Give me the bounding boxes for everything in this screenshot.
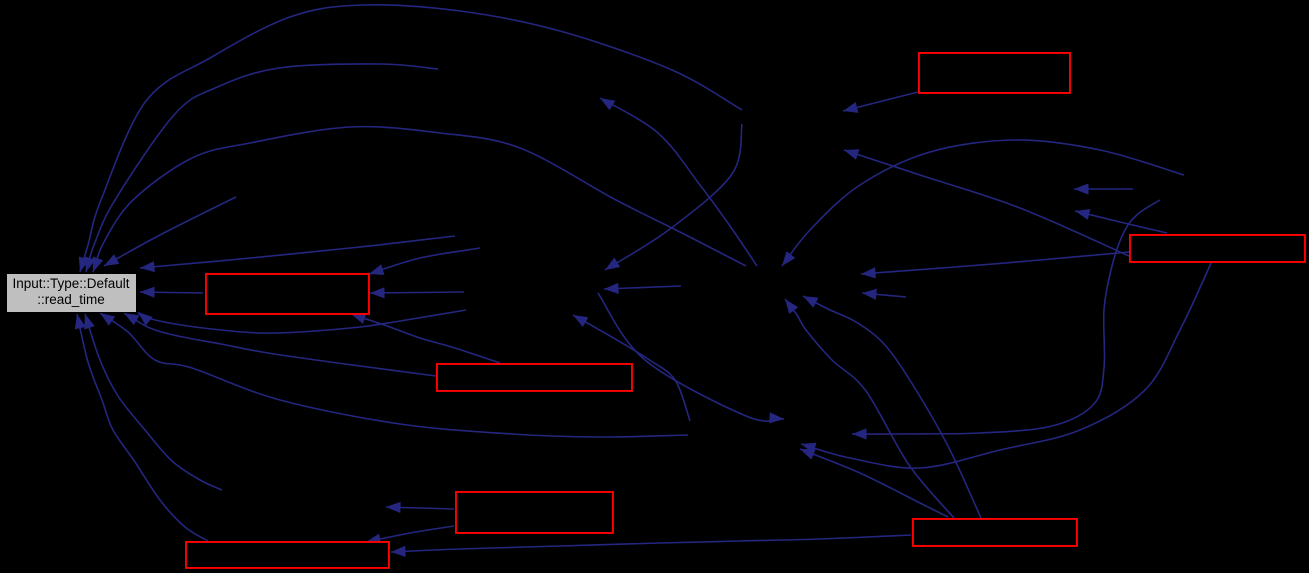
edge big right arc to T <box>782 140 1184 266</box>
edge box D top to box C bottom <box>351 313 500 363</box>
edge box G to T bottom 1 <box>785 299 954 518</box>
edge box B top to node <box>1075 209 1167 233</box>
edge S-curve to V2 right <box>852 200 1160 440</box>
box B <box>1130 235 1305 262</box>
box F <box>186 542 389 568</box>
box E <box>456 492 613 533</box>
edge long sag to read_time <box>100 313 688 437</box>
edge steep lower to read_time <box>84 314 222 490</box>
edge box C to read_time <box>140 287 203 298</box>
edge box A to upper node <box>843 92 918 113</box>
node Input::Type::Default::read_time <box>7 274 137 313</box>
edge box G to box F <box>391 535 911 557</box>
svg-text:::read_time: ::read_time <box>37 292 105 307</box>
box A <box>919 53 1070 93</box>
edge W to box C mid <box>370 287 464 298</box>
edge U to W <box>604 283 681 294</box>
box D <box>437 364 632 391</box>
box C <box>206 274 369 314</box>
edge arc2 to read_time <box>85 64 438 272</box>
edge big outer arc to read_time <box>79 5 742 272</box>
edge W to box C top <box>369 248 480 275</box>
edge box E to V1 <box>386 502 454 513</box>
svg-text:Input::Type::Default: Input::Type::Default <box>12 276 129 291</box>
edge stub to T <box>862 289 906 300</box>
edge V2 to lower W node <box>573 315 690 421</box>
edge diag to read_time <box>104 197 236 266</box>
edge stub right to node <box>1074 183 1133 194</box>
edge box F to read_time <box>75 314 208 541</box>
edge box B bottom to V2 <box>801 261 1212 468</box>
edge box G to V2 <box>800 449 948 517</box>
edge box D left to read_time <box>124 313 436 376</box>
edge W to V2 top <box>598 293 784 423</box>
edge box B to mid node <box>844 149 1129 256</box>
box G <box>913 519 1077 546</box>
edge box E to box F <box>366 526 454 545</box>
edge box B left to T <box>861 252 1129 279</box>
edge box G to T bottom 2 <box>803 296 981 518</box>
edge shallow to read_time corner <box>140 236 455 272</box>
edge T to upper left node <box>600 98 757 266</box>
edge arc3 from mid node to read_time <box>93 127 746 272</box>
edge sag W to read_time <box>138 310 466 333</box>
edge upper node to W <box>605 124 742 270</box>
